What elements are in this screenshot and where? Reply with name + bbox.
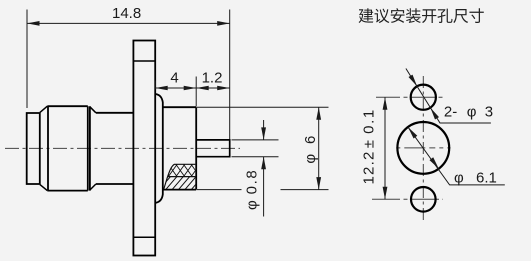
connector front coupling cylinder [27, 113, 40, 184]
svg-text:φ: φ [467, 104, 477, 121]
mounting flange plate [133, 41, 155, 256]
connector hex nut body [47, 106, 88, 190]
dimension 4 extension line (flange rear face) [154, 81, 156, 90]
dimension 4/1.2 shared extension line (boss rear face) [195, 77, 197, 107]
svg-text:3: 3 [485, 104, 493, 121]
dia 6 dimension line [318, 107, 320, 189]
svg-text:0.1: 0.1 [360, 108, 377, 134]
svg-text:φ: φ [454, 170, 464, 187]
dia 6 extension line bottom (broken around phi0.8 text) [197, 189, 242, 191]
svg-text:2-: 2- [444, 104, 457, 121]
collar shoulder behind flange [156, 94, 163, 203]
vertical centerline of hole pattern [422, 76, 424, 221]
dimension line 4 and 1.2 [155, 87, 230, 89]
dia 6 extension line top [197, 106, 329, 108]
centerline (horizontal axis of connector) [5, 147, 240, 149]
rear boss (dia 6) [163, 107, 196, 189]
dimension 12.2 +/- 0.1 line [384, 97, 386, 199]
dia 0.8 extension line top [232, 139, 279, 141]
bottom mounting hole circle (dia 3) [411, 187, 436, 212]
svg-text:6.1: 6.1 [476, 170, 497, 187]
dia 6.1 leader line through center hole [408, 127, 505, 185]
dia 0.8 dimension line lower [263, 157, 265, 217]
svg-text:12.2: 12.2 [360, 151, 377, 185]
dia 0.8 dimension line upper [263, 120, 265, 140]
dimension 14.8 / 1.2 extension line right [229, 10, 231, 140]
title: recommended mounting hole dimensions [359, 8, 484, 23]
hex nut corner chamfers [40, 106, 96, 190]
svg-text:1.2: 1.2 [202, 70, 223, 87]
dimension 14.8 extension line left [26, 10, 28, 109]
svg-text:φ: φ [244, 200, 261, 210]
center pin contact [196, 140, 230, 157]
bottom hole horizontal centerline [372, 198, 443, 200]
barrel between nut and flange [96, 113, 133, 184]
svg-text:±: ± [360, 140, 377, 148]
flange upper edge line [133, 60, 155, 62]
dimension 14.8 line [27, 22, 230, 24]
svg-text:0.8: 0.8 [244, 169, 261, 195]
svg-text:4: 4 [170, 70, 178, 87]
top mounting hole circle (dia 3) [411, 85, 436, 110]
center hole circle (dia 6.1) [397, 122, 449, 174]
svg-text:14.8: 14.8 [112, 5, 141, 22]
svg-text:6: 6 [302, 136, 319, 144]
middle hole horizontal centerline [396, 147, 450, 149]
dia 0.8 extension line bottom [232, 156, 279, 158]
dia 3 leader line through top hole [406, 69, 491, 124]
top hole horizontal centerline [376, 96, 443, 98]
flange lower edge line [133, 236, 155, 238]
insulator section boundary [164, 164, 196, 189]
svg-text:φ: φ [302, 154, 319, 164]
